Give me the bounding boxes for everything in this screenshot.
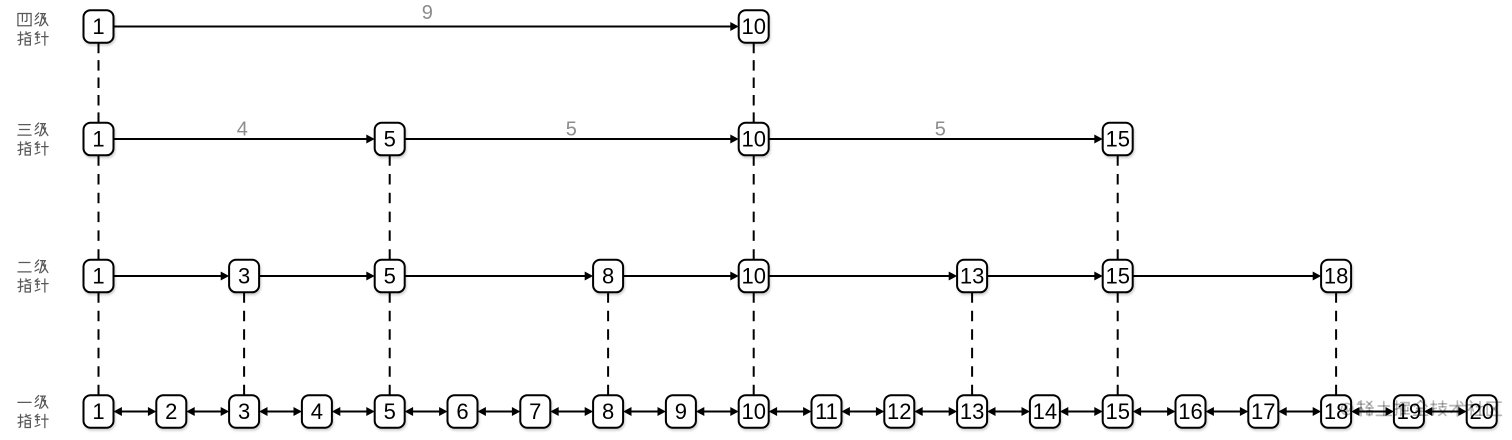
node level 1 value 20 xyxy=(1467,395,1497,428)
double arrow level 1: node 8 to node 9 xyxy=(623,407,666,416)
svg-text:14: 14 xyxy=(1033,399,1057,424)
double arrow level 1: node 9 to node 10 xyxy=(696,407,739,416)
dashed link node 3: level 2 to level 1 xyxy=(243,292,245,395)
double arrow level 1: node 15 to node 16 xyxy=(1133,407,1176,416)
watermark @稀土掘金技术社区 xyxy=(1341,401,1501,416)
svg-text:13: 13 xyxy=(960,399,984,424)
dashed link node 10: level 4 to level 3 xyxy=(753,43,755,123)
dashed link node 8: level 2 to level 1 xyxy=(607,292,609,395)
double arrow level 1: node 17 to node 18 xyxy=(1278,407,1321,416)
svg-text:5: 5 xyxy=(384,126,396,151)
node level 1 value 19 xyxy=(1394,395,1424,428)
double arrow level 1: node 13 to node 14 xyxy=(987,407,1030,416)
double arrow level 1: node 7 to node 8 xyxy=(550,407,593,416)
svg-text:5: 5 xyxy=(935,118,946,140)
double arrow level 1: node 14 to node 15 xyxy=(1060,407,1103,416)
svg-text:1: 1 xyxy=(92,14,104,39)
svg-text:1: 1 xyxy=(92,263,104,288)
label 二级指针 (row 2) xyxy=(18,260,48,292)
node level 2 value 8 xyxy=(593,260,623,293)
arrow level 3: node 10 to node 15 xyxy=(769,135,1103,144)
node level 2 value 10 xyxy=(739,260,769,293)
svg-text:9: 9 xyxy=(422,2,433,24)
dashed link node 15: level 2 to level 1 xyxy=(1117,292,1119,395)
node level 3 value 1 xyxy=(84,123,114,156)
svg-text:13: 13 xyxy=(960,263,984,288)
double arrow level 1: node 2 to node 3 xyxy=(186,407,229,416)
node level 1 value 18 xyxy=(1321,395,1351,428)
svg-text:10: 10 xyxy=(741,399,765,424)
svg-text:5: 5 xyxy=(384,263,396,288)
double arrow level 1: node 6 to node 7 xyxy=(478,407,521,416)
svg-text:3: 3 xyxy=(238,399,250,424)
node level 1 value 3 xyxy=(229,395,259,428)
svg-text:1: 1 xyxy=(92,399,104,424)
arrow level 3: node 5 to node 10 xyxy=(405,135,739,144)
node level 1 value 13 xyxy=(957,395,987,428)
node level 2 value 15 xyxy=(1103,260,1133,293)
arrow level 4: node 1 to node 10 xyxy=(114,22,739,31)
node level 3 value 5 xyxy=(375,123,405,156)
label 一级指针 (row 1) xyxy=(18,395,48,427)
svg-text:15: 15 xyxy=(1105,126,1129,151)
svg-text:15: 15 xyxy=(1105,399,1129,424)
svg-text:4: 4 xyxy=(311,399,323,424)
node level 2 value 13 xyxy=(957,260,987,293)
dashed link node 13: level 2 to level 1 xyxy=(971,292,973,395)
svg-text:15: 15 xyxy=(1105,263,1129,288)
node level 1 value 1 xyxy=(84,395,114,428)
node level 1 value 6 xyxy=(448,395,478,428)
dashed link node 1: level 3 to level 2 xyxy=(98,155,100,260)
arrow level 2: node 1 to node 3 xyxy=(114,272,230,281)
double arrow level 1: node 1 to node 2 xyxy=(114,407,157,416)
label 四级指针 (row 4) xyxy=(18,13,48,45)
dashed link node 5: level 3 to level 2 xyxy=(389,155,391,260)
node level 1 value 15 xyxy=(1103,395,1133,428)
label 三级指针 (row 3) xyxy=(18,123,48,155)
node level 1 value 2 xyxy=(156,395,186,428)
node level 1 value 7 xyxy=(520,395,550,428)
svg-text:1: 1 xyxy=(92,126,104,151)
double arrow level 1: node 3 to node 4 xyxy=(259,407,302,416)
node level 1 value 17 xyxy=(1248,395,1278,428)
node level 2 value 1 xyxy=(84,260,114,293)
double arrow level 1: node 19 to node 20 xyxy=(1424,407,1467,416)
dashed link node 1: level 4 to level 3 xyxy=(98,43,100,123)
node level 2 value 5 xyxy=(375,260,405,293)
node level 1 value 9 xyxy=(666,395,696,428)
node level 4 value 10 xyxy=(739,10,769,43)
svg-text:18: 18 xyxy=(1324,263,1348,288)
svg-text:17: 17 xyxy=(1251,399,1275,424)
node level 1 value 16 xyxy=(1176,395,1206,428)
svg-text:5: 5 xyxy=(566,118,577,140)
svg-text:10: 10 xyxy=(741,263,765,288)
node level 1 value 8 xyxy=(593,395,623,428)
svg-text:9: 9 xyxy=(675,399,687,424)
node level 2 value 18 xyxy=(1321,260,1351,293)
svg-text:10: 10 xyxy=(741,126,765,151)
double arrow level 1: node 10 to node 11 xyxy=(769,407,812,416)
svg-text:4: 4 xyxy=(237,118,248,140)
dashed link node 5: level 2 to level 1 xyxy=(389,292,391,395)
arrow level 2: node 10 to node 13 xyxy=(769,272,957,281)
node level 1 value 10 xyxy=(739,395,769,428)
node level 1 value 5 xyxy=(375,395,405,428)
arrow level 2: node 3 to node 5 xyxy=(259,272,375,281)
svg-text:5: 5 xyxy=(384,399,396,424)
double arrow level 1: node 12 to node 13 xyxy=(914,407,957,416)
arrow level 2: node 15 to node 18 xyxy=(1133,272,1321,281)
dashed link node 10: level 3 to level 2 xyxy=(753,155,755,260)
svg-text:10: 10 xyxy=(741,14,765,39)
double arrow level 1: node 11 to node 12 xyxy=(842,407,885,416)
dashed link node 15: level 3 to level 2 xyxy=(1117,155,1119,260)
node level 1 value 4 xyxy=(302,395,332,428)
double arrow level 1: node 4 to node 5 xyxy=(332,407,375,416)
node level 4 value 1 xyxy=(84,10,114,43)
arrow level 2: node 8 to node 10 xyxy=(623,272,739,281)
dashed link node 18: level 2 to level 1 xyxy=(1335,292,1337,395)
node level 1 value 12 xyxy=(884,395,914,428)
svg-text:7: 7 xyxy=(529,399,541,424)
node level 1 value 14 xyxy=(1030,395,1060,428)
dashed link node 1: level 2 to level 1 xyxy=(98,292,100,395)
svg-text:3: 3 xyxy=(238,263,250,288)
double arrow level 1: node 18 to node 19 xyxy=(1351,407,1394,416)
arrow level 2: node 5 to node 8 xyxy=(405,272,593,281)
svg-text:11: 11 xyxy=(815,399,838,424)
double arrow level 1: node 16 to node 17 xyxy=(1206,407,1249,416)
node level 3 value 15 xyxy=(1103,123,1133,156)
svg-text:16: 16 xyxy=(1178,399,1202,424)
dashed link node 10: level 2 to level 1 xyxy=(753,292,755,395)
node level 1 value 11 xyxy=(812,395,842,428)
svg-text:12: 12 xyxy=(887,399,911,424)
node level 2 value 3 xyxy=(229,260,259,293)
arrow level 3: node 1 to node 5 xyxy=(114,135,375,144)
svg-text:8: 8 xyxy=(602,263,614,288)
node level 3 value 10 xyxy=(739,123,769,156)
double arrow level 1: node 5 to node 6 xyxy=(405,407,448,416)
svg-text:2: 2 xyxy=(165,399,177,424)
svg-text:8: 8 xyxy=(602,399,614,424)
svg-text:6: 6 xyxy=(456,399,468,424)
arrow level 2: node 13 to node 15 xyxy=(987,272,1103,281)
